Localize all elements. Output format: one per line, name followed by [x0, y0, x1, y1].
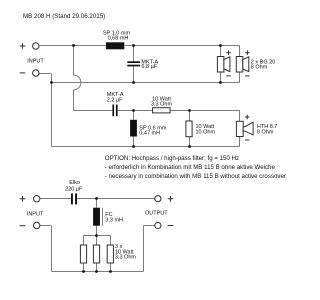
svg-text:6,8 µF: 6,8 µF — [141, 64, 157, 70]
svg-text:3,3 mH: 3,3 mH — [105, 217, 123, 223]
svg-text:2,2 µF: 2,2 µF — [107, 97, 123, 103]
svg-text:3,3 Ohm: 3,3 Ohm — [151, 101, 173, 107]
svg-text:10 Ohm: 10 Ohm — [196, 130, 216, 136]
svg-text:8 Ohm: 8 Ohm — [257, 130, 274, 136]
svg-text:Elko: Elko — [69, 180, 80, 186]
svg-text:8 Ohm: 8 Ohm — [251, 65, 268, 71]
svg-text:0,68 mH: 0,68 mH — [108, 36, 129, 42]
svg-text:0,47 mH: 0,47 mH — [139, 130, 160, 136]
svg-text:3,3 Ohm: 3,3 Ohm — [115, 255, 137, 261]
svg-text:220 µF: 220 µF — [65, 186, 83, 192]
svg-text:INPUT: INPUT — [27, 58, 44, 64]
svg-text:- erforderlich in Kombination: - erforderlich in Kombination mit MB 115… — [105, 164, 276, 171]
svg-text:OPTION: Hochpass / high-pass f: OPTION: Hochpass / high-pass filter; fg … — [105, 155, 239, 162]
svg-text:OUTPUT: OUTPUT — [145, 211, 168, 217]
svg-text:MB 208 H (Stand 29.06.2015): MB 208 H (Stand 29.06.2015) — [23, 13, 105, 20]
svg-text:INPUT: INPUT — [27, 212, 44, 218]
svg-text:- necessary in combination wit: - necessary in combination with MB 115 B… — [105, 173, 286, 180]
